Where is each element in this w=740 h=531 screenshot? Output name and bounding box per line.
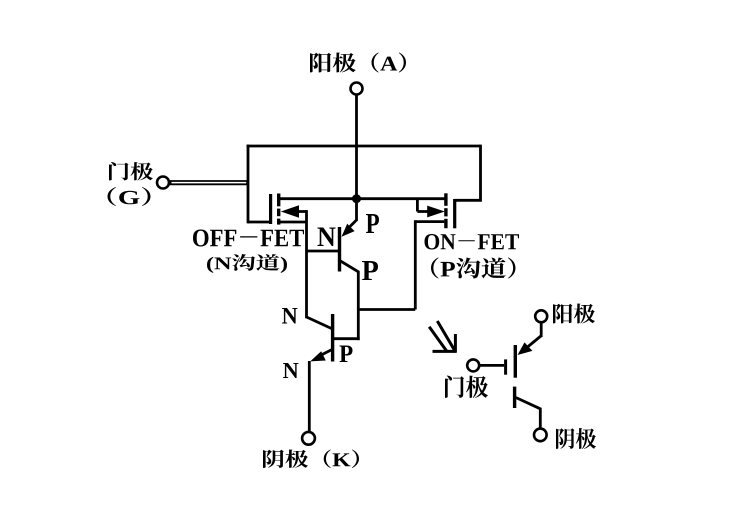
label N Q2 collector region (282, 308, 298, 324)
wire ON-FET source vertical (414, 220, 417, 309)
label 门极 (109, 162, 153, 181)
label 阴极（K） (263, 450, 359, 469)
MCT anode lead with arrow (518, 322, 542, 355)
transistor Q2 NPN emitter with arrow (310, 350, 331, 362)
transistor Q1 PNP emitter with arrow (342, 220, 357, 237)
wire node to ON-FET source horizontal (358, 308, 415, 311)
transistor Q2 NPN collector (307, 317, 332, 329)
MCT gate bar (504, 359, 507, 374)
wire OFF-FET source/body down (305, 210, 308, 318)
label N Q1 base region (318, 228, 336, 247)
label （P沟道） (431, 258, 516, 279)
MOSFET ON-FET gate bar (453, 199, 456, 228)
terminal MCT cathode (534, 429, 547, 442)
label OFF－FET (193, 230, 304, 247)
MOSFET OFF-FET channel source segment (277, 219, 280, 225)
MOSFET OFF-FET channel body segment (277, 209, 280, 217)
wire gate terminal to node (169, 180, 248, 185)
label P Q2 base region (340, 346, 353, 363)
label ON－FET (425, 234, 520, 250)
MOSFET ON-FET body arrow (417, 198, 444, 218)
wire ON-FET source stub (415, 220, 444, 223)
transistor Q2 NPN base wire (333, 337, 360, 340)
label N Q2 emitter region (283, 363, 299, 378)
MOSFET ON-FET drain wire (357, 197, 445, 200)
wire gate node vertical (247, 145, 250, 224)
label P Q1 emitter region (366, 214, 379, 233)
MCT upper bar (514, 345, 517, 378)
MOSFET OFF-FET gate bar (269, 194, 272, 224)
wire gate top bar (247, 145, 481, 148)
wire OFF-FET drain to anode node (280, 197, 357, 200)
wire gate to OFF-FET gate (248, 221, 269, 224)
equivalence double arrow (429, 321, 456, 353)
transistor Q1 PNP collector (341, 261, 359, 340)
terminal cathode K (302, 432, 315, 445)
terminal anode A (351, 83, 363, 95)
wire ON-FET gate link (455, 145, 481, 201)
label P Q1 collector region (362, 261, 378, 280)
terminal MCT gate (467, 359, 479, 371)
MOSFET ON-FET channel drain segment (444, 193, 447, 206)
wire Q1 base (307, 250, 340, 253)
label (N沟道) (207, 254, 287, 273)
terminal MCT anode (535, 310, 547, 322)
MCT cathode lead (516, 398, 541, 429)
MCT lower bar (513, 387, 516, 408)
label （G） (108, 187, 151, 206)
label 阴极 MCT (556, 428, 596, 449)
label 阳极 MCT (553, 304, 595, 324)
wire cathode vertical (308, 361, 311, 432)
MOSFET ON-FET channel body segment (444, 208, 447, 216)
MOSFET ON-FET channel source segment (444, 219, 447, 228)
transistor Q1 PNP base bar (338, 227, 341, 272)
MOSFET OFF-FET channel drain segment (277, 194, 280, 207)
transistor Q2 NPN base bar (331, 314, 334, 362)
wire MCT gate (479, 364, 504, 367)
label 门极 MCT (445, 376, 488, 399)
MOSFET OFF-FET body arrow (281, 205, 307, 217)
terminal gate G (157, 177, 169, 189)
wire anode vertical (355, 95, 358, 221)
wire OFF-FET source stub (280, 221, 307, 224)
junction dot anode/drain node (352, 194, 361, 203)
label 阳极（A） (310, 53, 406, 73)
